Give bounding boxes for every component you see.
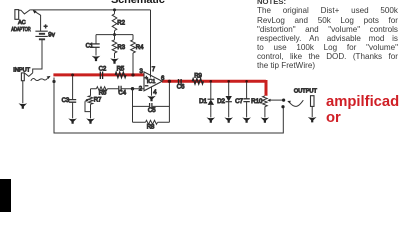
svg-text:R5: R5 xyxy=(117,67,125,73)
red annotation text xyxy=(326,95,399,126)
capacitor C1 xyxy=(95,35,97,56)
svg-text:R2: R2 xyxy=(117,20,125,26)
capacitor C2 xyxy=(100,72,102,80)
svg-text:IC1: IC1 xyxy=(147,79,156,85)
ground xyxy=(242,117,251,122)
svg-text:OUTPUT: OUTPUT xyxy=(294,88,318,94)
node pin3 xyxy=(131,73,134,76)
title "Schematic" (cut off at top) xyxy=(111,0,165,6)
svg-text:+: + xyxy=(145,75,148,81)
op-amp IC1 xyxy=(144,72,162,91)
resistor R8 xyxy=(133,121,170,123)
battery B1 9v xyxy=(40,15,42,31)
ground xyxy=(261,117,270,122)
node wiper-output xyxy=(282,99,285,102)
svg-text:C3: C3 xyxy=(62,98,70,104)
svg-text:D1: D1 xyxy=(199,98,207,105)
node bias xyxy=(113,33,116,36)
input jack J1 xyxy=(21,73,24,81)
node pin2 xyxy=(131,87,134,90)
svg-text:2: 2 xyxy=(139,86,143,92)
pin 4 wire xyxy=(151,87,153,96)
feedback right wire xyxy=(168,81,170,122)
feedback left wire xyxy=(132,89,134,123)
DC jack J2 (AC adaptor) xyxy=(15,10,19,20)
svg-text:C1: C1 xyxy=(86,43,94,49)
input jack sleeve wire xyxy=(22,81,24,104)
diode D2 xyxy=(227,80,230,83)
ground xyxy=(308,117,317,122)
svg-text:+: + xyxy=(44,24,48,31)
svg-text:R10: R10 xyxy=(251,98,263,105)
svg-text:AC: AC xyxy=(18,20,26,26)
red signal wire (output rail) xyxy=(162,80,266,96)
pin 7 wire xyxy=(150,10,152,78)
output jack J3 xyxy=(311,96,315,107)
svg-text:R8: R8 xyxy=(147,125,155,131)
ground xyxy=(110,58,119,63)
resistor R4 xyxy=(132,35,134,74)
NOTES paragraph xyxy=(257,0,398,70)
input switch arm xyxy=(31,78,48,81)
output jack sleeve wire xyxy=(311,106,313,117)
capacitor C7 xyxy=(245,80,248,83)
red signal wire (input to pin 3) xyxy=(53,73,143,76)
svg-text:9v: 9v xyxy=(48,31,55,38)
svg-text:4: 4 xyxy=(153,90,157,96)
svg-text:C4: C4 xyxy=(118,91,126,97)
node bypass-output xyxy=(281,105,284,108)
ground xyxy=(19,103,28,108)
svg-text:C2: C2 xyxy=(99,67,107,73)
ground xyxy=(86,118,95,123)
resistor R2 xyxy=(114,10,116,35)
node top rail xyxy=(113,8,116,11)
svg-text:C7: C7 xyxy=(235,98,243,105)
wire xyxy=(24,73,32,77)
svg-text:R6: R6 xyxy=(99,91,107,97)
capacitor C6 xyxy=(179,79,182,85)
svg-text:R3: R3 xyxy=(117,45,125,51)
wire to pin 2 xyxy=(121,88,144,90)
wire xyxy=(19,10,31,14)
svg-text:R9: R9 xyxy=(194,73,202,79)
pot R7 (distortion) xyxy=(90,94,92,119)
resistor R9 xyxy=(192,79,203,84)
wire xyxy=(96,34,133,36)
wiper wire xyxy=(269,99,283,101)
bypass wire xyxy=(54,78,283,134)
resistor R6 xyxy=(91,88,119,90)
svg-text:−: − xyxy=(145,84,148,90)
capacitor C4 xyxy=(119,86,121,92)
svg-text:R4: R4 xyxy=(136,45,144,51)
svg-text:7: 7 xyxy=(152,67,156,73)
svg-text:C5: C5 xyxy=(148,108,156,114)
capacitor C5 xyxy=(133,105,170,107)
diode D1 xyxy=(210,80,213,83)
svg-text:ADAPTOR: ADAPTOR xyxy=(11,27,31,33)
pot R10 (volume) xyxy=(264,107,266,118)
ground xyxy=(207,117,216,122)
top supply rail wire xyxy=(30,9,150,11)
resistor R5 xyxy=(115,72,126,77)
battery switch arrow xyxy=(35,11,41,15)
output switch arm xyxy=(287,101,291,104)
svg-text:D2: D2 xyxy=(217,98,225,105)
svg-text:C6: C6 xyxy=(177,85,185,91)
node input tip xyxy=(52,80,55,83)
ground xyxy=(224,117,233,122)
ground xyxy=(147,96,156,101)
resistor R3 xyxy=(114,35,116,59)
svg-text:R7: R7 xyxy=(94,97,102,103)
black bar bottom-left xyxy=(0,179,11,212)
ground xyxy=(92,56,101,61)
capacitor C3 xyxy=(71,73,74,76)
ground xyxy=(68,118,77,123)
